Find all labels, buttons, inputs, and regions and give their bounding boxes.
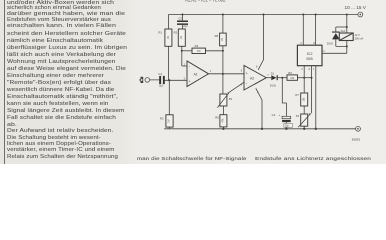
svg-text:1M: 1M: [221, 38, 224, 41]
svg-text:2: 2: [301, 68, 303, 71]
svg-text:+: +: [246, 71, 249, 75]
svg-text:DUS: DUS: [270, 84, 276, 88]
svg-text:8: 8: [256, 65, 258, 68]
svg-text:C2: C2: [178, 17, 182, 21]
svg-text:A1: A1: [194, 72, 198, 76]
svg-text:82832: 82832: [352, 137, 361, 141]
svg-text:1: 1: [313, 68, 315, 71]
svg-text:1: 1: [210, 70, 212, 73]
svg-text:R6: R6: [288, 71, 292, 75]
svg-text:+: +: [188, 80, 191, 84]
svg-text:6: 6: [241, 83, 243, 86]
svg-text:2µ2: 2µ2: [159, 84, 164, 88]
svg-text:7: 7: [267, 74, 269, 77]
svg-text:Re1: Re1: [341, 29, 346, 33]
svg-text:C4: C4: [272, 113, 276, 117]
svg-text:A1,A2 = IC1 = TL 082: A1,A2 = IC1 = TL 082: [185, 0, 226, 3]
svg-text:R2: R2: [174, 31, 178, 35]
svg-text:-: -: [189, 64, 191, 69]
svg-text:1M: 1M: [167, 36, 170, 39]
svg-text:5: 5: [241, 70, 243, 73]
svg-text:10µ: 10µ: [285, 126, 290, 128]
svg-text:+: +: [279, 113, 281, 117]
svg-text:10 ... 15 V: 10 ... 15 V: [345, 5, 367, 10]
svg-text:DUS: DUS: [327, 41, 333, 45]
svg-text:1M: 1M: [168, 119, 171, 122]
svg-text:R1: R1: [158, 31, 162, 35]
svg-text:A2: A2: [250, 76, 254, 80]
svg-text:R4: R4: [195, 44, 199, 48]
svg-text:200 mA: 200 mA: [355, 38, 364, 41]
svg-text:R5: R5: [215, 34, 219, 38]
svg-text:P2: P2: [229, 97, 233, 101]
svg-text:R6: R6: [215, 115, 219, 119]
svg-text:P1: P1: [296, 114, 300, 118]
svg-text:3: 3: [323, 50, 325, 53]
svg-text:1M: 1M: [197, 50, 200, 53]
svg-text:C1: C1: [158, 72, 162, 76]
svg-text:-: -: [246, 81, 248, 86]
svg-text:R7: R7: [295, 93, 299, 97]
svg-text:IC2: IC2: [307, 52, 313, 56]
svg-text:8: 8: [313, 42, 315, 45]
svg-text:R3: R3: [160, 117, 164, 121]
svg-text:4: 4: [300, 42, 302, 45]
svg-text:6: 6: [309, 68, 311, 71]
svg-text:D1: D1: [271, 71, 275, 75]
svg-text:2µ2: 2µ2: [183, 24, 188, 28]
svg-text:555: 555: [306, 57, 312, 61]
svg-text:1M: 1M: [180, 36, 183, 39]
